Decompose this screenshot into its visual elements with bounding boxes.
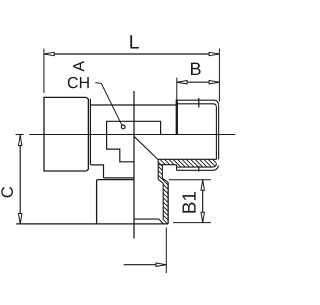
neck outer face bbox=[161, 165, 163, 178]
thread end tick top bbox=[198, 98, 200, 108]
hex section rectangle (CH) bbox=[107, 121, 161, 162]
male thread root line bbox=[178, 104, 217, 107]
male bottom root line bbox=[177, 164, 217, 168]
male bore line bbox=[158, 158, 217, 160]
neck inner face bbox=[157, 159, 159, 179]
dimension B1 top arrow bbox=[201, 180, 204, 190]
label C (rotated) bbox=[1, 187, 13, 198]
bottom opening chamfer bbox=[159, 219, 163, 224]
bottom dimension right arrow bbox=[156, 263, 166, 266]
bottom extension line bbox=[165, 228, 167, 274]
hatch neck wall bbox=[158, 165, 162, 180]
band bottom line left bbox=[158, 164, 176, 166]
flare outer diagonal bbox=[162, 178, 168, 182]
extension line right (L and B) bbox=[218, 49, 220, 102]
label B1 (rotated) bbox=[183, 192, 196, 213]
dimension B1 bottom arrow bbox=[201, 212, 204, 222]
label A (rotated) bbox=[73, 61, 84, 72]
hatch band under male end (right part) bbox=[177, 159, 217, 167]
dimension L left arrow bbox=[44, 52, 54, 55]
band step vertical bbox=[176, 165, 178, 171]
bottom opening ring line bbox=[134, 218, 159, 220]
body top edge bbox=[90, 104, 176, 106]
hatch band under male end (left part) bbox=[158, 159, 176, 164]
label B bbox=[191, 63, 201, 75]
male end face inner line bbox=[215, 107, 217, 160]
horizontal centerline bbox=[16, 134, 236, 136]
male end left edge (thick) bbox=[176, 100, 178, 135]
lower wall inner face bbox=[162, 184, 164, 220]
flare inner diagonal bbox=[158, 179, 163, 183]
leader dot CH bbox=[121, 125, 125, 129]
extension line left (L) bbox=[43, 49, 45, 94]
bottom dimension line bbox=[124, 264, 167, 266]
bottom socket top edge bbox=[104, 177, 134, 179]
dimension C top arrow bbox=[19, 135, 22, 145]
label L bbox=[130, 35, 139, 48]
dimension C bottom arrow bbox=[19, 214, 22, 224]
dimension L right arrow bbox=[209, 52, 219, 55]
leader line CH bbox=[95, 83, 122, 126]
hatch flare bbox=[158, 178, 168, 183]
lower wall outer face bbox=[167, 182, 169, 223]
hatch bottom chamfer triangle bbox=[159, 219, 164, 224]
dimension B1 top extension line bbox=[169, 179, 211, 181]
thread end tick bottom bbox=[198, 166, 200, 172]
dimension C line bbox=[19, 135, 21, 223]
male thread crest line bbox=[178, 100, 219, 105]
dimension B right arrow bbox=[209, 81, 219, 84]
bottom socket left face bbox=[96, 180, 98, 224]
label CH bbox=[68, 77, 89, 88]
male end face outer line bbox=[218, 106, 220, 160]
dimension B left arrow bbox=[177, 81, 187, 84]
male end left edge (thin upper = B extension) bbox=[176, 78, 178, 100]
bottom face line (extends to C dimension) bbox=[16, 223, 168, 225]
bottom socket chamfer ring line bbox=[97, 180, 134, 181]
step from socket to bottom port bbox=[92, 165, 104, 178]
dimension B1 line bbox=[202, 180, 204, 223]
male bottom crest line bbox=[177, 166, 219, 171]
vertical centerline bbox=[133, 91, 135, 239]
dimension B line bbox=[177, 81, 220, 83]
left socket body outline bbox=[44, 97, 88, 171]
hatch lower wall bbox=[163, 182, 168, 223]
dimension B1 bottom extension line bbox=[173, 222, 211, 224]
left socket end inner ring line bbox=[90, 99, 91, 165]
cone diagonal (section break) bbox=[134, 137, 158, 160]
dimension L line bbox=[44, 53, 220, 55]
